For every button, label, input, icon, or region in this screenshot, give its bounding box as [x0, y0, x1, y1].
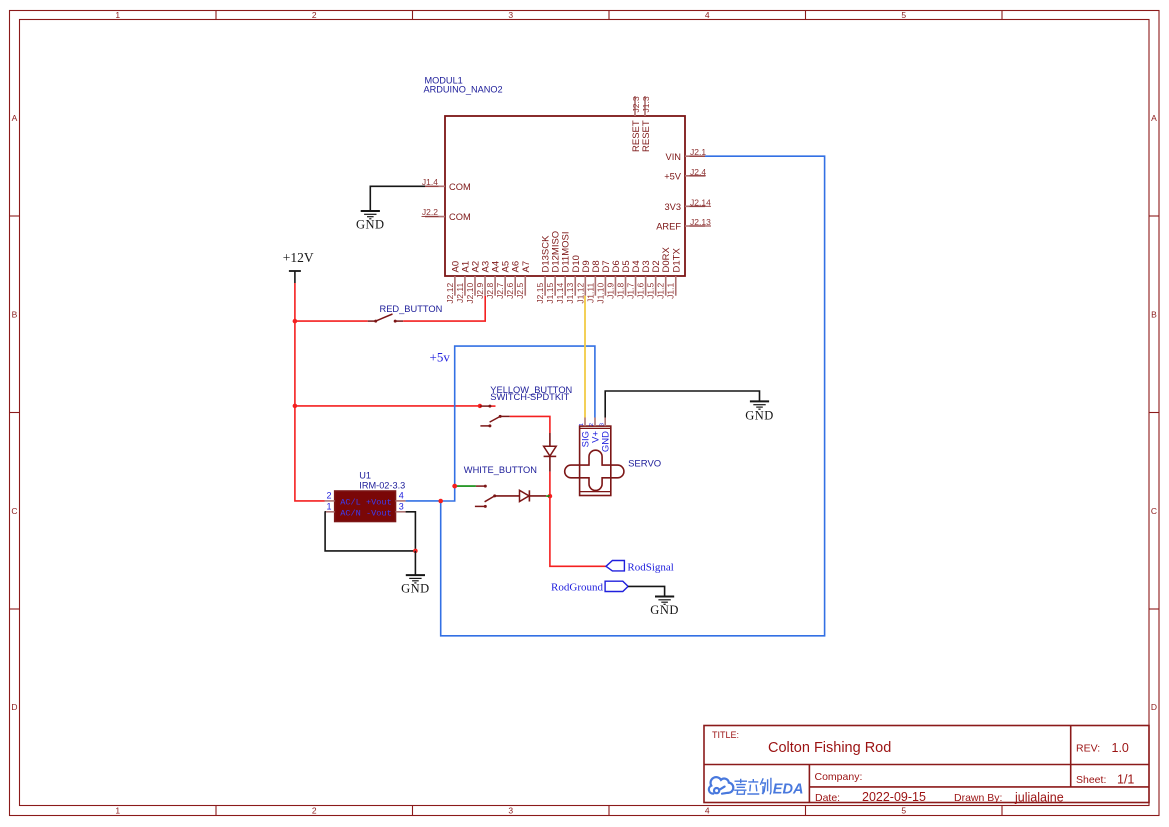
node junction blue white button: [452, 484, 457, 489]
svg-text:Date:: Date:: [815, 792, 840, 804]
svg-text:GND: GND: [650, 603, 679, 617]
svg-text:+5V: +5V: [664, 171, 682, 181]
pin J1.5 D2: [655, 276, 657, 296]
net flag RodSignal: [606, 561, 624, 571]
pin J2.14 3V3: [685, 205, 705, 207]
svg-text:AC/L +Vout: AC/L +Vout: [340, 497, 392, 507]
svg-text:J2.12: J2.12: [445, 283, 455, 304]
U1 pin 2: [325, 500, 335, 502]
svg-text:B: B: [12, 309, 18, 319]
svg-text:3: 3: [508, 10, 513, 20]
svg-text:julialaine: julialaine: [1014, 790, 1064, 804]
svg-text:2: 2: [312, 806, 317, 816]
svg-text:J2.13: J2.13: [690, 217, 711, 227]
svg-text:RESET: RESET: [641, 120, 652, 152]
pin J1.15 D12MISO: [554, 276, 556, 296]
switch RED_BUTTON: [368, 314, 404, 323]
svg-text:4: 4: [399, 490, 404, 500]
svg-text:D: D: [1151, 702, 1157, 712]
pin J2.3 RESET: [634, 96, 636, 116]
U1 pin 3: [396, 511, 406, 513]
wire yellow button to diode D?: [510, 416, 550, 433]
wire module COM J1.4 to ground: [370, 186, 425, 210]
svg-text:J1.7: J1.7: [626, 283, 636, 299]
svg-text:J2.2: J2.2: [422, 207, 438, 217]
wire green stub before junction: [546, 495, 550, 497]
pin J1.2 D0RX: [665, 276, 667, 296]
wire U1 pin1/pin3 to ground loop: [325, 512, 416, 551]
svg-text:+5v: +5v: [430, 349, 451, 364]
node junction yellow button: [478, 404, 482, 408]
svg-text:Colton Fishing Rod: Colton Fishing Rod: [768, 740, 891, 756]
ground GND near module: [356, 211, 385, 232]
svg-text:4: 4: [705, 10, 710, 20]
svg-text:J2.4: J2.4: [690, 167, 706, 177]
svg-text:J1.8: J1.8: [616, 283, 626, 299]
svg-text:J1.4: J1.4: [422, 177, 438, 187]
diode D2 (horizontal): [495, 490, 547, 501]
svg-text:J2.7: J2.7: [495, 283, 505, 299]
svg-text:A: A: [1151, 113, 1157, 123]
svg-text:RodSignal: RodSignal: [627, 562, 673, 574]
svg-text:GND: GND: [401, 582, 430, 596]
pin J1.14 D11MOSI: [564, 276, 566, 296]
pin J2.5 A7: [524, 276, 526, 296]
wire blue junction to +5v box: [441, 346, 595, 501]
svg-text:U1: U1: [359, 470, 371, 480]
wire blue VIN loop: [441, 156, 825, 636]
svg-text:J1.1: J1.1: [666, 283, 676, 299]
pin J2.2 COM: [425, 216, 445, 218]
wire junction to ground: [414, 551, 416, 575]
U1 pin 4: [396, 500, 406, 502]
svg-text:2: 2: [326, 490, 331, 500]
logo text 嘉立创EDA: [734, 778, 771, 795]
svg-text:RodGround: RodGround: [551, 582, 603, 594]
wire red to RED_BUTTON: [295, 320, 368, 322]
title block: [704, 726, 1149, 803]
pin J1.13 D10: [574, 276, 576, 296]
pin J2.15 D13SCK: [544, 276, 546, 296]
svg-text:SWITCH-SPDTKIT: SWITCH-SPDTKIT: [490, 392, 569, 402]
pin J1.7 D4: [635, 276, 637, 296]
svg-text:EDA: EDA: [773, 782, 804, 798]
svg-text:J1.3: J1.3: [641, 96, 651, 112]
svg-text:1/1: 1/1: [1117, 772, 1134, 786]
pin J2.13 AREF: [685, 225, 705, 227]
wire red button to pin A3: [403, 296, 485, 321]
pin J2.4 +5V: [685, 175, 705, 177]
svg-text:TITLE:: TITLE:: [712, 730, 739, 740]
svg-text:J2.6: J2.6: [505, 283, 515, 299]
svg-text:A: A: [12, 113, 18, 123]
svg-text:J2.1: J2.1: [690, 147, 706, 157]
svg-text:SERVO: SERVO: [628, 458, 661, 469]
svg-text:A7: A7: [521, 261, 532, 273]
svg-text:GND: GND: [601, 431, 612, 452]
switch WHITE_BUTTON: [475, 485, 496, 508]
node junction diodes: [548, 494, 553, 499]
pin J1.6 D3: [645, 276, 647, 296]
svg-text:J2.14: J2.14: [690, 197, 711, 207]
pin J1.9 D6: [614, 276, 616, 296]
svg-text:3V3: 3V3: [664, 202, 681, 212]
svg-text:J1.11: J1.11: [585, 283, 595, 303]
wire yellow D9 to servo SIG: [584, 296, 586, 418]
svg-text:J1.6: J1.6: [636, 283, 646, 299]
svg-text:2: 2: [589, 423, 595, 426]
svg-text:Drawn By:: Drawn By:: [954, 792, 1002, 804]
ground GND RodGround: [650, 597, 679, 618]
svg-text:J1.14: J1.14: [555, 283, 565, 304]
switch YELLOW_BUTTON SWITCH-SPDTKIT: [480, 405, 510, 428]
pin J2.12 A0: [454, 276, 456, 296]
logo JLC EDA cloud: [709, 777, 733, 794]
svg-text:Sheet:: Sheet:: [1076, 774, 1106, 786]
svg-text:C: C: [11, 506, 17, 516]
svg-text:3: 3: [508, 806, 513, 816]
svg-text:J1.13: J1.13: [565, 283, 575, 304]
svg-text:1: 1: [326, 501, 331, 511]
svg-text:J1.10: J1.10: [595, 283, 605, 304]
pin J2.6 A6: [514, 276, 516, 296]
svg-text:1: 1: [579, 423, 585, 426]
svg-text:VIN: VIN: [666, 152, 682, 162]
wire green white button: [455, 485, 476, 487]
svg-text:4: 4: [705, 806, 710, 816]
svg-text:J1.9: J1.9: [605, 283, 615, 299]
module MODUL1 ARDUINO_NANO2 body: [445, 116, 685, 276]
pin J2.7 A5: [504, 276, 506, 296]
U1 IRM-02-3.3 body: [335, 491, 396, 522]
pin J1.12 D9: [584, 276, 586, 296]
pin J2.10 A2: [474, 276, 476, 296]
pin J1.8 D5: [625, 276, 627, 296]
pin J1.4 COM: [425, 185, 445, 187]
svg-text:2022-09-15: 2022-09-15: [862, 790, 926, 804]
svg-text:3: 3: [399, 501, 404, 511]
svg-text:J1.15: J1.15: [545, 283, 555, 304]
pin J1.3 RESET: [644, 96, 646, 116]
svg-text:GND: GND: [356, 218, 385, 232]
svg-text:COM: COM: [449, 182, 471, 192]
node junction +12V / yellow row: [293, 404, 298, 409]
svg-text:Company:: Company:: [815, 771, 863, 783]
wire junction to RodSignal: [550, 496, 606, 566]
svg-text:1: 1: [115, 10, 120, 20]
svg-text:5: 5: [901, 10, 906, 20]
pin J1.11 D8: [594, 276, 596, 296]
U1 pin 1: [325, 511, 335, 513]
net flag RodGround: [605, 581, 628, 591]
node junction blue U1: [438, 499, 443, 504]
svg-text:2: 2: [312, 10, 317, 20]
pin J1.10 D7: [604, 276, 606, 296]
wire RodGround to ground: [628, 586, 665, 596]
svg-text:3: 3: [599, 423, 605, 426]
svg-text:5: 5: [901, 806, 906, 816]
svg-text:1.0: 1.0: [1112, 741, 1129, 755]
svg-text:B: B: [1151, 309, 1157, 319]
wire +12V rail to yellow button: [295, 405, 480, 407]
svg-text:J1.12: J1.12: [575, 283, 585, 304]
wire diode to junction: [549, 472, 551, 496]
svg-text:COM: COM: [449, 212, 471, 222]
svg-text:1: 1: [115, 806, 120, 816]
node junction U1 ground: [413, 549, 418, 554]
svg-text:J2.15: J2.15: [535, 283, 545, 304]
svg-text:IRM-02-3.3: IRM-02-3.3: [359, 480, 405, 490]
diode D1 (vertical): [544, 433, 557, 472]
ground GND servo: [745, 401, 774, 422]
wire servo GND to ground: [605, 391, 759, 418]
wire +12V rail: [295, 283, 325, 501]
servo pin 3: [604, 418, 606, 427]
svg-text:J2.9: J2.9: [475, 283, 485, 299]
svg-text:J1.5: J1.5: [646, 283, 656, 299]
pin J2.8 A4: [494, 276, 496, 296]
svg-text:J1.2: J1.2: [656, 283, 666, 299]
svg-text:J2.5: J2.5: [515, 283, 525, 299]
svg-text:J2.8: J2.8: [485, 283, 495, 299]
svg-text:AREF: AREF: [656, 222, 681, 232]
pin J1.1 D1TX: [675, 276, 677, 296]
svg-text:WHITE_BUTTON: WHITE_BUTTON: [464, 465, 537, 475]
svg-text:D: D: [11, 702, 17, 712]
svg-text:RED_BUTTON: RED_BUTTON: [380, 304, 443, 314]
svg-text:D1TX: D1TX: [671, 248, 682, 273]
servo pin 1: [584, 418, 586, 427]
servo pin 2: [594, 418, 596, 427]
svg-text:C: C: [1151, 506, 1157, 516]
pin J2.9 A3: [484, 276, 486, 296]
pin J2.1 VIN: [685, 155, 705, 157]
svg-text:GND: GND: [745, 409, 774, 423]
svg-text:ARDUINO_NANO2: ARDUINO_NANO2: [424, 85, 503, 95]
ground GND U1: [401, 575, 430, 595]
svg-text:REV:: REV:: [1076, 742, 1100, 754]
servo SERVO body: [565, 426, 624, 495]
wire blue U1 pin4 to junction: [406, 500, 441, 502]
node junction +12V / red button row: [293, 319, 298, 324]
svg-text:AC/N -Vout: AC/N -Vout: [340, 508, 392, 518]
svg-text:J2.3: J2.3: [631, 96, 641, 112]
svg-text:J2.11: J2.11: [455, 283, 465, 303]
svg-text:+12V: +12V: [283, 250, 314, 265]
pin J2.11 A1: [464, 276, 466, 296]
svg-text:J2.10: J2.10: [465, 283, 475, 304]
